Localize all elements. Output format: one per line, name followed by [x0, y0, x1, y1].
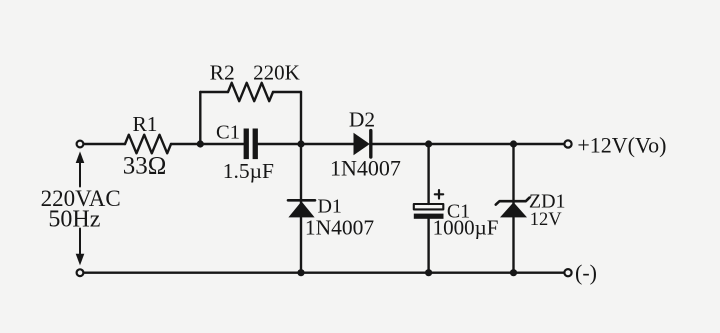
wire node A to node B through C1 gap	[258, 143, 354, 145]
svg-text:(-): (-)	[575, 260, 597, 285]
terminal output +	[564, 140, 571, 147]
svg-text:50Hz: 50Hz	[48, 207, 100, 233]
svg-text:12V: 12V	[530, 210, 563, 230]
svg-text:C1: C1	[216, 121, 240, 143]
wire top rail left	[85, 143, 126, 145]
node B junction dot	[297, 140, 304, 147]
node D junction dot top of ZD1	[510, 140, 517, 147]
node A junction dot	[197, 140, 204, 147]
terminal output -	[564, 269, 571, 276]
svg-text:220K: 220K	[253, 60, 300, 84]
diode D1 cathode bar	[288, 199, 315, 202]
capacitor C1 electrolytic bottom plate	[414, 214, 444, 219]
wire R2 loop right vertical	[300, 92, 302, 144]
node G junction dot bottom of ZD1	[510, 269, 517, 276]
svg-text:ZD1: ZD1	[529, 190, 566, 212]
AC source arrowhead up	[76, 151, 85, 163]
node F junction dot bottom of C1	[425, 269, 432, 276]
svg-text:33Ω: 33Ω	[123, 153, 167, 180]
wire D2 cathode to output terminal	[373, 143, 564, 145]
resistor R1	[125, 135, 171, 154]
capacitor C1 electrolytic polarity plus	[435, 190, 443, 198]
capacitor C1 film right plate	[253, 129, 258, 160]
svg-text:R1: R1	[132, 112, 157, 136]
svg-text:1N4007: 1N4007	[330, 156, 401, 181]
wire R2 loop top left	[200, 91, 228, 93]
terminal input top	[77, 141, 84, 148]
wire R2 loop top right	[273, 91, 301, 93]
diode D1 triangle	[288, 201, 314, 217]
zener ZD1 cathode bar	[496, 198, 530, 205]
svg-text:1N4007: 1N4007	[305, 216, 375, 240]
node C junction dot top of C1	[425, 140, 432, 147]
capacitor C1 electrolytic top plate	[414, 204, 444, 209]
svg-text:D2: D2	[349, 108, 375, 132]
zener ZD1 triangle	[500, 202, 527, 217]
svg-text:+12V(Vo): +12V(Vo)	[577, 133, 666, 158]
wire R1 to node A	[171, 143, 244, 145]
AC source arrowhead down	[76, 254, 85, 266]
node E junction dot bottom of D1	[297, 269, 304, 276]
wire R2 loop left vertical	[199, 92, 201, 144]
capacitor C1 film left plate	[244, 129, 249, 160]
wire bottom rail	[85, 272, 564, 274]
svg-text:D1: D1	[317, 196, 341, 218]
wire C1 electrolytic bottom lead	[427, 219, 429, 273]
terminal input bottom	[77, 269, 84, 276]
diode D2 cathode bar	[369, 131, 372, 157]
resistor R2	[228, 83, 273, 101]
wire AC source arrow shaft	[79, 161, 81, 257]
wire ZD1 branch vertical	[512, 144, 514, 273]
wire D1 branch vertical	[300, 144, 302, 273]
wire C1 electrolytic top lead	[427, 144, 429, 204]
diode D2 triangle	[354, 133, 370, 155]
svg-text:1.5µF: 1.5µF	[223, 159, 274, 183]
svg-text:1000µF: 1000µF	[433, 216, 499, 240]
svg-text:R2: R2	[210, 61, 235, 85]
